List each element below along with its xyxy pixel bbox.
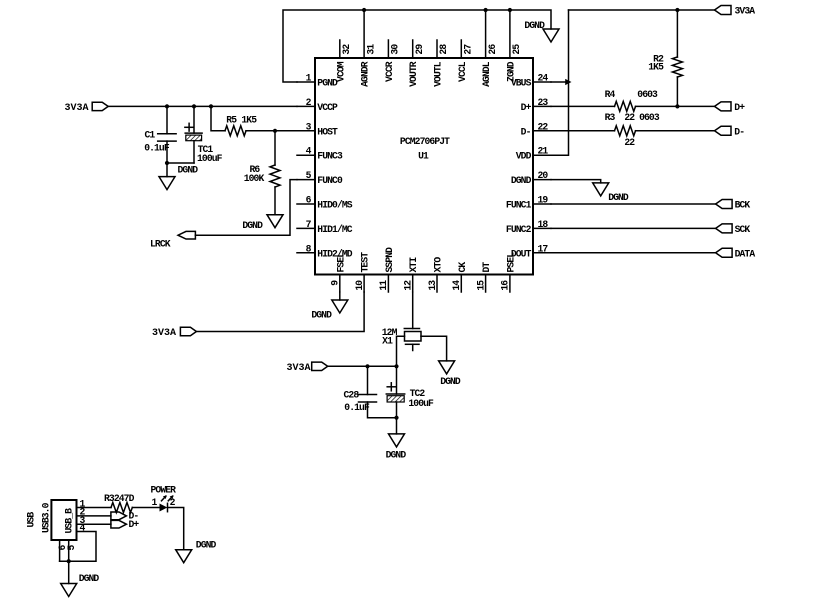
svg-text:FUNC1: FUNC1	[506, 200, 532, 211]
junction TC2 bottom	[394, 416, 398, 420]
svg-text:31: 31	[365, 44, 376, 55]
U1 pin 17 DOUT	[533, 252, 551, 254]
U1 pin 22 D-	[533, 130, 551, 132]
svg-text:12: 12	[403, 280, 414, 291]
svg-text:BCK: BCK	[735, 200, 751, 211]
ground DGND under TC2	[396, 418, 398, 434]
U1 pin 20 DGND	[533, 179, 551, 181]
svg-text:PSEL: PSEL	[505, 252, 516, 273]
svg-text:24: 24	[538, 73, 549, 84]
terminal D+	[715, 102, 732, 111]
resistor R6 100K	[274, 131, 276, 165]
junction R5 R6 HOST	[273, 129, 277, 133]
svg-text:X1: X1	[382, 335, 393, 346]
svg-text:VDD: VDD	[516, 151, 532, 162]
U1 pin 26 AGNDL	[485, 10, 487, 58]
svg-text:FSEL: FSEL	[335, 252, 346, 273]
terminal 3V3A top right	[715, 6, 732, 15]
svg-text:DGND: DGND	[242, 220, 263, 231]
U1 pin 14 CK	[460, 275, 462, 293]
svg-text:1K5: 1K5	[241, 114, 257, 125]
svg-text:HOST: HOST	[317, 126, 338, 137]
svg-text:0.1uF: 0.1uF	[344, 402, 370, 413]
svg-text:R4: R4	[605, 89, 616, 100]
ground DGND pin9	[339, 292, 341, 300]
svg-text:0603: 0603	[637, 89, 658, 100]
USB pin 5 shield	[68, 540, 70, 561]
U1 pin 18 FUNC2	[533, 227, 551, 229]
svg-text:28: 28	[438, 44, 449, 55]
terminal 3V3A bottom	[312, 362, 328, 370]
svg-text:R3247D: R3247D	[104, 493, 135, 504]
ground DGND LED	[176, 550, 192, 563]
svg-text:D-: D-	[521, 126, 531, 137]
U1 pin 30 VCCR	[387, 40, 389, 58]
junction R2 top	[675, 8, 679, 12]
U1 pin 10 TEST	[363, 275, 365, 293]
U1 pin 5 FUNC0	[297, 179, 315, 181]
svg-text:POWER: POWER	[151, 484, 177, 495]
U1 pin 1 PGND	[297, 81, 315, 83]
svg-text:100uF: 100uF	[408, 398, 434, 409]
wire FUNC1 to BCK	[551, 203, 716, 205]
svg-text:0603: 0603	[639, 112, 660, 123]
resistor R4 22 0603	[551, 105, 615, 107]
USB pin 4 GND	[60, 532, 96, 562]
wire TEST to 3V3A	[196, 292, 364, 332]
wire pin20 to ground	[551, 180, 601, 183]
terminal D- arrow	[111, 512, 127, 520]
LED light arrows	[162, 496, 166, 501]
svg-text:100K: 100K	[244, 173, 265, 184]
svg-text:TEST: TEST	[360, 252, 371, 273]
svg-text:USB: USB	[26, 512, 37, 528]
U1 pin 2 VCCP	[297, 105, 315, 107]
svg-text:FUNC2: FUNC2	[506, 224, 532, 235]
wire pin24 VBUS to bus	[551, 81, 566, 83]
capacitor TC2 100uF polarized	[396, 366, 398, 394]
USB pin 1 VBUS	[77, 507, 112, 509]
junction R2 bottom	[675, 104, 679, 108]
junction C1 TC1 ground node	[165, 161, 169, 165]
svg-text:0.1uF: 0.1uF	[144, 143, 170, 154]
svg-text:32: 32	[341, 44, 352, 55]
svg-text:D+: D+	[521, 102, 532, 113]
junction R5 top	[209, 104, 213, 108]
svg-text:17: 17	[538, 243, 549, 254]
svg-text:ZGND: ZGND	[505, 61, 516, 82]
terminal DATA	[716, 248, 733, 257]
junction TC2 top	[394, 364, 398, 368]
svg-text:DGND: DGND	[196, 540, 217, 551]
svg-text:DGND: DGND	[311, 310, 332, 321]
svg-text:26: 26	[487, 44, 498, 55]
svg-text:11: 11	[378, 280, 389, 291]
svg-text:USB_B: USB_B	[64, 508, 75, 534]
U1 pin 12 XTI	[412, 275, 414, 293]
svg-text:DGND: DGND	[440, 376, 461, 387]
U1 pin 23 D+	[533, 105, 551, 107]
U1 pin 19 FUNC1	[533, 203, 551, 205]
wire VBUS-VDD vertical	[533, 10, 569, 155]
wire X1 right to ground	[421, 336, 447, 361]
U1 pin 6 HID0/MS	[297, 203, 315, 205]
svg-text:D+: D+	[734, 102, 745, 113]
wire FUNC2 to SCK	[551, 227, 716, 229]
terminal 3V3A test	[180, 327, 196, 335]
terminal D-	[715, 126, 732, 135]
capacitor C28 0.1uF	[367, 366, 369, 394]
svg-text:HID1/MC: HID1/MC	[317, 224, 352, 235]
wire 3V3A top rail	[569, 9, 715, 11]
U1 pin 9 FSEL	[339, 275, 341, 293]
LED POWER	[160, 504, 168, 512]
svg-text:13: 13	[427, 280, 438, 291]
ground DGND under C1	[166, 163, 168, 177]
capacitor TC1 100uF polarized	[193, 106, 195, 133]
svg-text:DGND: DGND	[511, 175, 532, 186]
svg-text:10: 10	[354, 280, 365, 291]
U1 pin 27 VCCL	[460, 40, 462, 58]
U1 pin 21 VDD	[533, 154, 551, 156]
svg-text:SCK: SCK	[735, 224, 751, 235]
U1 pin 3 HOST	[297, 130, 315, 132]
connector USB_B body	[51, 500, 76, 540]
U1 pin 13 XTO	[436, 275, 438, 293]
resistor R3 22 0603	[551, 130, 615, 132]
svg-text:DGND: DGND	[178, 165, 199, 176]
svg-text:30: 30	[390, 44, 401, 55]
svg-text:D-: D-	[734, 126, 744, 137]
svg-text:1K5: 1K5	[648, 62, 664, 73]
svg-text:VCCR: VCCR	[384, 61, 395, 82]
svg-text:C1: C1	[145, 129, 156, 140]
U1 pin 29 VOUTR	[412, 40, 414, 58]
svg-text:DGND: DGND	[608, 192, 629, 203]
svg-text:XTI: XTI	[408, 257, 419, 273]
svg-text:DGND: DGND	[79, 573, 100, 584]
capacitor C1 0.1uF	[166, 106, 168, 133]
U1 pin 24 VBUS	[533, 81, 551, 83]
svg-text:U1: U1	[418, 151, 429, 162]
terminal BCK	[716, 200, 733, 209]
svg-text:29: 29	[414, 44, 425, 55]
junction TC1 top	[192, 104, 196, 108]
svg-text:FUNC0: FUNC0	[317, 175, 343, 186]
svg-text:18: 18	[538, 219, 549, 230]
svg-text:22: 22	[624, 137, 635, 148]
svg-text:C28: C28	[344, 390, 360, 401]
ground DGND crystal	[439, 361, 455, 374]
svg-text:DGND: DGND	[524, 20, 545, 31]
resistor R5 1K5	[211, 106, 225, 130]
wire 3V3A to VCCP	[108, 105, 297, 107]
USB pin 6 shield	[59, 540, 61, 561]
terminal 3V3A left	[92, 102, 108, 110]
svg-text:19: 19	[538, 195, 549, 206]
svg-text:3V3A: 3V3A	[152, 328, 176, 339]
svg-text:CK: CK	[457, 262, 468, 273]
svg-text:25: 25	[511, 44, 522, 55]
svg-text:SSPND: SSPND	[384, 247, 395, 273]
svg-text:VOUTL: VOUTL	[433, 61, 444, 87]
wire 3V3A rail to caps	[328, 365, 397, 367]
svg-text:3V3A: 3V3A	[64, 103, 88, 114]
svg-text:14: 14	[451, 280, 462, 291]
svg-text:20: 20	[538, 170, 549, 181]
ground DGND pin20	[593, 183, 609, 196]
ground DGND USB	[68, 561, 70, 583]
svg-text:AGNDL: AGNDL	[481, 61, 492, 87]
U1 pin 8 HID2/MD	[297, 252, 315, 254]
junction pin31	[362, 8, 366, 12]
svg-text:23: 23	[538, 97, 549, 108]
wire X1 left to cap node	[397, 336, 405, 366]
svg-text:3V3A: 3V3A	[735, 5, 756, 16]
svg-text:DGND: DGND	[386, 450, 407, 461]
U1 pin 16 PSEL	[509, 275, 511, 293]
terminal D+ arrow	[111, 520, 127, 528]
svg-text:XTO: XTO	[433, 257, 444, 273]
junction C1 top	[165, 104, 169, 108]
svg-text:LRCK: LRCK	[150, 238, 171, 249]
junction pin25	[508, 8, 512, 12]
U1 pin 11 SSPND	[387, 275, 389, 293]
svg-text:R5: R5	[226, 114, 237, 125]
svg-text:16: 16	[500, 280, 511, 291]
U1 pin 15 DT	[485, 275, 487, 293]
svg-text:VOUTR: VOUTR	[408, 61, 419, 87]
junction USB ground	[67, 559, 71, 563]
USB pin 2 D-	[77, 515, 111, 517]
wire LRCK to FUNC0	[195, 180, 297, 236]
wire DOUT to DATA	[551, 252, 716, 254]
svg-text:VCCP: VCCP	[317, 102, 338, 113]
svg-text:VCCL: VCCL	[457, 61, 468, 82]
wire LED cathode to ground	[168, 508, 184, 550]
svg-text:15: 15	[475, 280, 486, 291]
svg-text:22: 22	[538, 121, 549, 132]
svg-text:DATA: DATA	[735, 248, 756, 259]
svg-text:R3: R3	[605, 112, 616, 123]
crystal X1 12M	[412, 292, 414, 329]
junction C28 top	[365, 364, 369, 368]
wire top ground bus pin1 to DGND	[283, 10, 551, 82]
svg-text:VCOM: VCOM	[335, 61, 346, 82]
ground DGND top	[543, 29, 559, 42]
U1 pin 28 VOUTL	[436, 40, 438, 58]
svg-text:D+: D+	[129, 519, 140, 530]
terminal SCK	[716, 224, 733, 233]
svg-text:AGNDR: AGNDR	[360, 61, 371, 87]
U1 pin 4 FUNC3	[297, 154, 315, 156]
terminal LRCK	[178, 231, 195, 239]
svg-text:3V3A: 3V3A	[286, 363, 310, 374]
junction arrow pin24 to bus	[565, 79, 571, 85]
svg-text:PCM2706PJT: PCM2706PJT	[400, 136, 450, 147]
U1 pin 7 HID1/MC	[297, 227, 315, 229]
svg-text:27: 27	[463, 44, 474, 55]
ground DGND under R6	[267, 215, 283, 228]
USB pin 3 D+	[77, 523, 111, 525]
svg-text:DT: DT	[481, 262, 492, 273]
svg-text:USB3.0: USB3.0	[41, 502, 52, 533]
svg-text:FUNC3: FUNC3	[317, 151, 343, 162]
resistor R2 1K5	[676, 10, 678, 57]
IC U1 PCM2706PJT body	[315, 58, 533, 275]
svg-text:HID0/MS: HID0/MS	[317, 200, 352, 211]
resistor R3247D	[111, 503, 132, 513]
U1 pin 32 VCOM	[339, 40, 341, 58]
U1 pin 25 ZGND	[509, 10, 511, 58]
junction pin26	[484, 8, 488, 12]
U1 pin 31 AGNDR	[363, 10, 365, 58]
svg-text:22: 22	[624, 112, 635, 123]
svg-text:100uF: 100uF	[197, 153, 223, 164]
